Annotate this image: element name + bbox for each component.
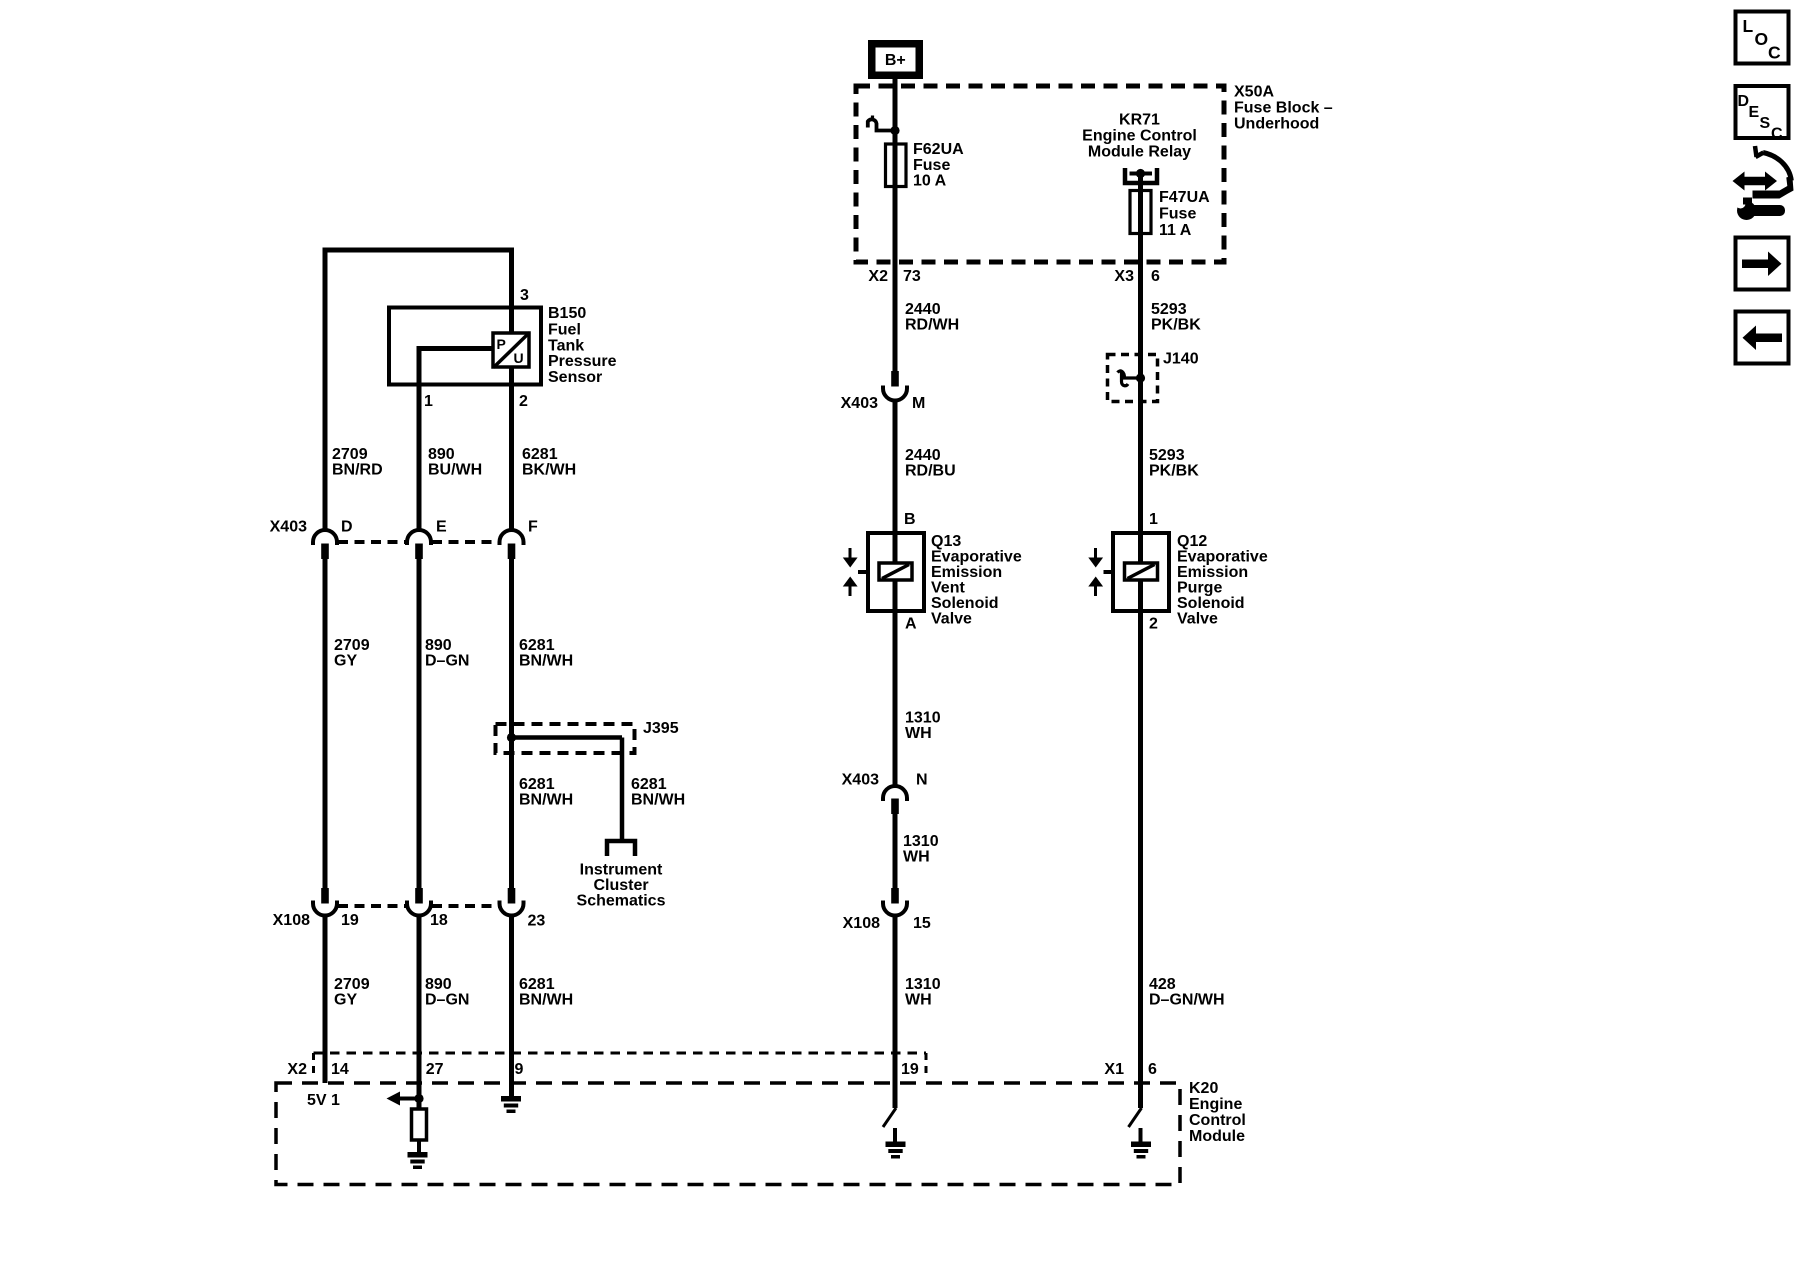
svg-text:1310: 1310 bbox=[903, 833, 939, 850]
off-page connector to instrument cluster bbox=[607, 841, 635, 856]
svg-text:BN/WH: BN/WH bbox=[519, 792, 573, 809]
svg-text:PK/BK: PK/BK bbox=[1149, 463, 1199, 480]
svg-text:Cluster: Cluster bbox=[593, 877, 648, 894]
svg-text:X3: X3 bbox=[1114, 268, 1134, 285]
svg-text:6281: 6281 bbox=[519, 976, 555, 993]
wire sensor top loop bbox=[323, 248, 514, 253]
svg-text:E: E bbox=[1749, 104, 1760, 121]
svg-text:J395: J395 bbox=[643, 720, 679, 737]
svg-text:WH: WH bbox=[905, 725, 932, 742]
ground (internal, pin 9) bbox=[501, 1096, 521, 1102]
svg-text:Engine: Engine bbox=[1189, 1096, 1242, 1113]
svg-text:RD/WH: RD/WH bbox=[905, 317, 959, 334]
svg-text:D: D bbox=[1738, 93, 1750, 110]
ECM connector X2 dotted row bbox=[314, 1052, 927, 1055]
svg-text:6281: 6281 bbox=[519, 637, 555, 654]
svg-text:BN/WH: BN/WH bbox=[519, 653, 573, 670]
svg-text:2709: 2709 bbox=[334, 637, 370, 654]
svg-text:5293: 5293 bbox=[1149, 447, 1185, 464]
valve arrows Q13 bbox=[849, 548, 852, 559]
svg-text:S: S bbox=[1760, 115, 1771, 132]
wire X403-M to Q13 bbox=[893, 401, 898, 534]
svg-text:F62UA: F62UA bbox=[913, 141, 964, 158]
svg-text:6: 6 bbox=[1148, 1061, 1157, 1078]
in-line connector X108 pin 15 bbox=[891, 888, 899, 904]
wire fuse to connector X2-73 bbox=[893, 186, 898, 371]
svg-text:9: 9 bbox=[515, 1061, 524, 1078]
svg-text:Fuse Block –: Fuse Block – bbox=[1234, 100, 1333, 117]
svg-text:Instrument: Instrument bbox=[580, 862, 663, 879]
svg-text:2440: 2440 bbox=[905, 301, 941, 318]
svg-text:BU/WH: BU/WH bbox=[428, 462, 482, 479]
wire X403-N to X108-15 bbox=[893, 814, 898, 888]
battery B+ terminal bbox=[872, 44, 920, 76]
svg-text:1310: 1310 bbox=[905, 710, 941, 727]
ground (internal, pin 19) bbox=[886, 1142, 906, 1148]
svg-text:PK/BK: PK/BK bbox=[1151, 317, 1201, 334]
svg-text:Engine Control: Engine Control bbox=[1082, 128, 1197, 145]
svg-text:6281: 6281 bbox=[522, 446, 558, 463]
resistor (internal) bbox=[412, 1109, 427, 1140]
svg-text:Evaporative: Evaporative bbox=[1177, 549, 1268, 566]
svg-text:D–GN: D–GN bbox=[425, 992, 469, 1009]
svg-text:Fuse: Fuse bbox=[1159, 206, 1196, 223]
svg-text:Solenoid: Solenoid bbox=[931, 595, 999, 612]
svg-text:BN/RD: BN/RD bbox=[332, 462, 383, 479]
svg-text:B+: B+ bbox=[885, 52, 906, 69]
svg-text:X1: X1 bbox=[1104, 1061, 1124, 1078]
X403 harness dashed line bbox=[338, 540, 406, 544]
svg-text:U: U bbox=[514, 350, 524, 366]
svg-text:Vent: Vent bbox=[931, 580, 965, 597]
wire pin 2 bbox=[509, 367, 514, 531]
svg-text:Emission: Emission bbox=[931, 564, 1002, 581]
svg-text:BN/WH: BN/WH bbox=[631, 792, 685, 809]
svg-text:B: B bbox=[904, 511, 916, 528]
ground (internal, pin 6) bbox=[1131, 1142, 1151, 1148]
splice J140 bbox=[1108, 355, 1158, 402]
svg-text:J140: J140 bbox=[1163, 351, 1199, 368]
svg-text:Q13: Q13 bbox=[931, 533, 961, 550]
P/U pressure transducer symbol bbox=[493, 333, 529, 367]
junction at clip bbox=[890, 126, 899, 135]
svg-text:F: F bbox=[528, 519, 538, 536]
svg-text:GY: GY bbox=[334, 653, 357, 670]
svg-text:15: 15 bbox=[913, 915, 931, 932]
wire X108-19 to ECM X2-14 bbox=[323, 916, 328, 1084]
svg-text:Module: Module bbox=[1189, 1128, 1245, 1145]
fuse clip terminal bbox=[868, 119, 895, 130]
valve arrows Q12 bbox=[1094, 548, 1097, 559]
svg-text:10 A: 10 A bbox=[913, 173, 947, 190]
wire E to X108-18 bbox=[417, 559, 422, 888]
svg-text:73: 73 bbox=[903, 268, 921, 285]
icon wiring-tools (double arrow and wrench) bbox=[1733, 172, 1778, 191]
svg-text:890: 890 bbox=[425, 976, 452, 993]
wire B+ to fuse F62UA bbox=[893, 79, 898, 192]
svg-text:19: 19 bbox=[341, 912, 359, 929]
svg-text:428: 428 bbox=[1149, 976, 1176, 993]
svg-text:X108: X108 bbox=[843, 915, 880, 932]
in-line connector X403 pin N bbox=[883, 786, 907, 801]
svg-text:27: 27 bbox=[426, 1061, 444, 1078]
sensor B150 Fuel Tank Pressure Sensor box bbox=[389, 308, 541, 385]
switch to ground (pin 19) bbox=[883, 1108, 896, 1127]
svg-text:X2: X2 bbox=[868, 268, 888, 285]
wire Q13-A down bbox=[893, 611, 898, 786]
svg-text:RD/BU: RD/BU bbox=[905, 463, 956, 480]
svg-text:X403: X403 bbox=[270, 519, 307, 536]
wire X108-23 to ECM X2-9 bbox=[509, 916, 514, 1097]
svg-text:K20: K20 bbox=[1189, 1080, 1218, 1097]
svg-text:M: M bbox=[912, 395, 925, 412]
wire pin 3 bbox=[509, 248, 514, 335]
wire D to X108-19 bbox=[323, 559, 328, 888]
fuse block X50A dashed box bbox=[856, 86, 1224, 262]
ground (internal, pin 27) bbox=[408, 1152, 428, 1158]
wire X108-18 to ECM X2-27 bbox=[417, 916, 422, 1111]
fuse F47UA 11A bbox=[1130, 191, 1151, 234]
svg-text:890: 890 bbox=[425, 637, 452, 654]
wire X108-15 to ECM pin 19 bbox=[893, 916, 898, 1109]
svg-text:Fuse: Fuse bbox=[913, 157, 950, 174]
svg-text:WH: WH bbox=[903, 849, 930, 866]
svg-text:X403: X403 bbox=[841, 395, 878, 412]
svg-text:23: 23 bbox=[528, 913, 546, 930]
svg-text:6: 6 bbox=[1151, 268, 1160, 285]
svg-text:5V 1: 5V 1 bbox=[307, 1092, 340, 1109]
svg-text:2: 2 bbox=[519, 393, 528, 410]
svg-text:F47UA: F47UA bbox=[1159, 189, 1210, 206]
svg-text:3: 3 bbox=[520, 287, 529, 304]
svg-text:Solenoid: Solenoid bbox=[1177, 595, 1245, 612]
svg-text:D–GN: D–GN bbox=[425, 653, 469, 670]
svg-text:1310: 1310 bbox=[905, 976, 941, 993]
X108 harness dashed line bbox=[338, 904, 406, 908]
svg-text:L: L bbox=[1743, 16, 1754, 36]
svg-text:C: C bbox=[1768, 43, 1781, 63]
icon LOC box bbox=[1736, 12, 1789, 64]
wire F to X108-23 bbox=[509, 559, 514, 888]
svg-text:Valve: Valve bbox=[931, 611, 972, 628]
svg-text:Q12: Q12 bbox=[1177, 533, 1207, 550]
svg-text:WH: WH bbox=[905, 992, 932, 1009]
wire J395 branch bbox=[512, 735, 623, 740]
svg-text:2709: 2709 bbox=[332, 446, 368, 463]
wire relay to fuse F47UA bbox=[1138, 174, 1143, 235]
svg-text:N: N bbox=[916, 772, 928, 789]
svg-text:KR71: KR71 bbox=[1119, 112, 1160, 129]
svg-text:X108: X108 bbox=[273, 912, 310, 929]
svg-text:GY: GY bbox=[334, 992, 357, 1009]
wire fuse F47UA to X3-6 bbox=[1138, 233, 1143, 355]
svg-text:E: E bbox=[436, 519, 447, 536]
svg-text:X403: X403 bbox=[842, 772, 879, 789]
wire J140 to Q12 bbox=[1138, 355, 1143, 533]
svg-text:890: 890 bbox=[428, 446, 455, 463]
svg-text:6281: 6281 bbox=[631, 776, 667, 793]
svg-text:Module Relay: Module Relay bbox=[1088, 144, 1191, 161]
svg-text:D: D bbox=[341, 519, 353, 536]
svg-text:Schematics: Schematics bbox=[577, 893, 666, 910]
svg-text:BK/WH: BK/WH bbox=[522, 462, 576, 479]
svg-text:D–GN/WH: D–GN/WH bbox=[1149, 992, 1225, 1009]
svg-text:18: 18 bbox=[430, 912, 448, 929]
svg-text:14: 14 bbox=[331, 1061, 349, 1078]
svg-text:O: O bbox=[1755, 29, 1769, 49]
svg-text:P: P bbox=[497, 336, 506, 352]
svg-text:2: 2 bbox=[1149, 616, 1158, 633]
svg-text:Pressure: Pressure bbox=[548, 353, 617, 370]
svg-text:2709: 2709 bbox=[334, 976, 370, 993]
icon DESC box bbox=[1736, 86, 1789, 138]
module K20 dashed box bbox=[276, 1083, 1180, 1185]
signal arrow into module (pin 27) bbox=[400, 1097, 420, 1101]
wire Q12-2 to ECM X1-6 bbox=[1138, 611, 1143, 1108]
svg-text:B150: B150 bbox=[548, 305, 586, 322]
splice J395 bbox=[496, 724, 635, 753]
svg-text:1: 1 bbox=[1149, 511, 1158, 528]
svg-text:6281: 6281 bbox=[519, 776, 555, 793]
svg-text:11 A: 11 A bbox=[1159, 222, 1192, 239]
svg-text:X50A: X50A bbox=[1234, 84, 1274, 101]
svg-text:Emission: Emission bbox=[1177, 564, 1248, 581]
svg-text:1: 1 bbox=[424, 393, 433, 410]
in-line connector X403 pin M bbox=[891, 371, 899, 387]
wire pin 1 bbox=[419, 346, 493, 351]
svg-text:Control: Control bbox=[1189, 1112, 1246, 1129]
svg-text:19: 19 bbox=[901, 1061, 919, 1078]
svg-text:Valve: Valve bbox=[1177, 611, 1218, 628]
svg-text:Fuel: Fuel bbox=[548, 322, 581, 339]
icon back arrow box bbox=[1736, 312, 1789, 364]
svg-text:C: C bbox=[1771, 126, 1783, 143]
svg-text:Underhood: Underhood bbox=[1234, 116, 1319, 133]
svg-text:5293: 5293 bbox=[1151, 301, 1187, 318]
svg-text:2440: 2440 bbox=[905, 447, 941, 464]
svg-text:X2: X2 bbox=[287, 1061, 307, 1078]
svg-text:Purge: Purge bbox=[1177, 580, 1222, 597]
svg-text:Tank: Tank bbox=[548, 338, 584, 355]
svg-text:Evaporative: Evaporative bbox=[931, 549, 1022, 566]
switch to ground (pin 6) bbox=[1129, 1108, 1142, 1127]
fuse F62UA 10A bbox=[886, 144, 907, 187]
svg-text:BN/WH: BN/WH bbox=[519, 992, 573, 1009]
svg-text:Sensor: Sensor bbox=[548, 369, 602, 386]
svg-text:A: A bbox=[905, 616, 917, 633]
icon next arrow box bbox=[1736, 238, 1789, 290]
